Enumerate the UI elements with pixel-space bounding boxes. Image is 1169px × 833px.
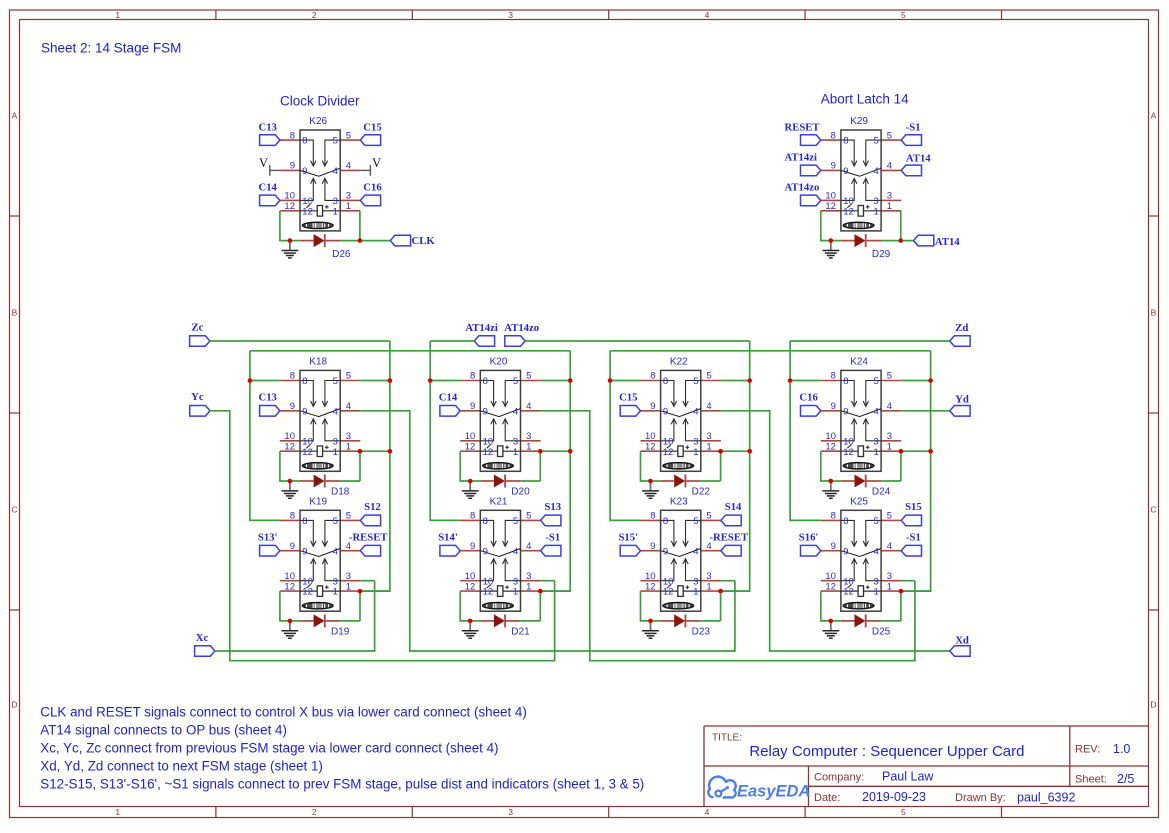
svg-text:9: 9	[831, 541, 836, 552]
port Xc	[195, 632, 215, 656]
net flag V (K26 pin 9 left)	[259, 156, 280, 176]
svg-text:1: 1	[526, 441, 531, 452]
svg-text:1: 1	[333, 447, 338, 458]
svg-text:AT14 signal connects to OP bus: AT14 signal connects to OP bus (sheet 4)	[40, 723, 287, 738]
wire pin-5/pin-1 bus column 1	[360, 341, 390, 591]
wire pin-8 bus column 4	[790, 341, 821, 520]
svg-text:5: 5	[874, 136, 879, 147]
svg-text:12: 12	[483, 587, 494, 598]
svg-text:4: 4	[513, 546, 518, 557]
wire pin-8 bus column 3	[610, 351, 640, 521]
svg-text:3: 3	[706, 431, 711, 442]
svg-text:S14: S14	[725, 501, 742, 513]
svg-text:10: 10	[645, 431, 656, 442]
wire K22.8 bus to K24 right bus (row 351)	[610, 350, 931, 352]
port AT14 (output)	[914, 235, 961, 248]
svg-text:9: 9	[843, 166, 848, 177]
relay K23	[641, 497, 721, 612]
svg-text:RESET: RESET	[785, 121, 820, 133]
svg-text:1: 1	[526, 581, 531, 592]
svg-text:D: D	[1150, 700, 1156, 710]
svg-text:AT14: AT14	[935, 236, 960, 248]
svg-text:4: 4	[526, 541, 531, 552]
svg-text:5: 5	[346, 511, 351, 522]
port Xd	[950, 634, 970, 656]
port Zd	[950, 322, 970, 346]
svg-text:C15: C15	[619, 391, 637, 403]
svg-text:5: 5	[333, 136, 338, 147]
wire K25 pin1 loop	[881, 591, 931, 621]
relay K20	[460, 357, 540, 472]
port AT14zo (K29 pin 10)	[785, 182, 821, 206]
svg-text:1: 1	[346, 201, 351, 212]
svg-text:3: 3	[706, 571, 711, 582]
net flag V (K26 pin 4 right)	[360, 156, 381, 176]
diode D25	[831, 614, 891, 637]
svg-text:AT14zo: AT14zo	[785, 182, 820, 194]
wire Yc to K21.3	[210, 411, 555, 661]
svg-text:2019-09-23: 2019-09-23	[862, 790, 926, 804]
svg-text:3: 3	[333, 576, 338, 587]
wire K26 pin12 to ground loop	[280, 211, 290, 241]
svg-text:5: 5	[513, 516, 518, 527]
wire K24 pin12 loop	[821, 451, 831, 481]
svg-text:5: 5	[887, 130, 892, 141]
svg-text:K29: K29	[850, 116, 868, 127]
svg-text:3: 3	[346, 431, 351, 442]
diode D29	[831, 234, 891, 260]
wire K19 pin1 loop	[340, 591, 390, 621]
svg-text:C: C	[11, 505, 17, 515]
relay K21	[460, 497, 540, 612]
svg-text:8: 8	[843, 376, 848, 387]
wire K19.3 stub-run	[360, 580, 374, 582]
svg-text:3: 3	[346, 191, 351, 202]
svg-text:AT14zi: AT14zi	[785, 152, 817, 164]
ground	[822, 621, 839, 638]
svg-text:1: 1	[513, 587, 518, 598]
svg-text:12: 12	[663, 447, 674, 458]
svg-text:1: 1	[513, 447, 518, 458]
svg-text:Clock Divider: Clock Divider	[280, 93, 360, 108]
svg-text:-RESET: -RESET	[709, 531, 748, 543]
svg-text:AT14: AT14	[906, 152, 931, 164]
svg-text:S12-S15, S13'-S16', ~S1 signal: S12-S15, S13'-S16', ~S1 signals connect …	[40, 777, 644, 792]
svg-text:9: 9	[831, 161, 836, 172]
svg-text:12: 12	[284, 201, 295, 212]
svg-text:4: 4	[693, 406, 698, 417]
svg-text:12: 12	[843, 447, 854, 458]
svg-text:5: 5	[526, 511, 531, 522]
svg-text:1: 1	[693, 447, 698, 458]
svg-text:9: 9	[290, 161, 295, 172]
wire K24 pin1 loop	[881, 451, 931, 481]
svg-text:10: 10	[284, 191, 295, 202]
wire K20.4 to K25.3	[541, 411, 915, 661]
svg-text:5: 5	[346, 130, 351, 141]
wire K22 pin1 loop	[701, 451, 750, 481]
port S15 (K25 pin 5)	[901, 501, 922, 526]
svg-text:12: 12	[284, 581, 295, 592]
wire pin-8 bus column 1	[250, 351, 280, 521]
svg-text:4: 4	[333, 546, 338, 557]
svg-text:D18: D18	[331, 486, 350, 497]
svg-text:2: 2	[312, 10, 317, 20]
svg-text:1: 1	[706, 581, 711, 592]
svg-text:10: 10	[825, 431, 836, 442]
port S15' (K23 pin 9)	[618, 531, 640, 556]
port C16 (K24 pin 9)	[799, 391, 820, 416]
port C14 (K26 pin 10)	[258, 182, 279, 206]
port -RESET (K19 pin 4)	[349, 531, 388, 556]
ground	[822, 481, 839, 498]
svg-text:TITLE:: TITLE:	[712, 733, 742, 744]
port AT14zi (grid)	[465, 322, 497, 346]
svg-text:8: 8	[302, 516, 307, 527]
svg-text:D: D	[11, 700, 17, 710]
ground	[462, 621, 479, 638]
diode D24	[831, 475, 891, 498]
svg-text:5: 5	[706, 511, 711, 522]
svg-text:S14': S14'	[438, 531, 458, 543]
svg-text:K21: K21	[490, 497, 508, 508]
relay K25	[821, 497, 901, 612]
svg-text:1: 1	[887, 441, 892, 452]
relay K19	[280, 497, 360, 612]
svg-text:10: 10	[302, 196, 313, 207]
wire K20 pin1 loop	[520, 451, 570, 481]
wire K18.4 to K23.3	[360, 411, 735, 651]
wire pin-5/pin-1 bus column 3	[721, 341, 750, 591]
svg-text:9: 9	[470, 401, 475, 412]
port AT14 (K29 pin 4)	[901, 152, 931, 175]
svg-text:4: 4	[333, 406, 338, 417]
diode D21	[470, 614, 530, 637]
svg-text:Xd, Yd, Zd connect to next FSM: Xd, Yd, Zd connect to next FSM stage (sh…	[40, 759, 323, 774]
svg-text:Abort Latch 14: Abort Latch 14	[821, 91, 909, 106]
svg-text:1: 1	[706, 441, 711, 452]
wire K18 pin1 loop	[340, 451, 390, 481]
svg-text:D21: D21	[511, 626, 530, 637]
svg-text:1: 1	[333, 587, 338, 598]
svg-text:CLK: CLK	[412, 235, 436, 247]
port C15 (K26 pin 5)	[360, 121, 381, 145]
wire K23 pin1 loop	[701, 591, 750, 621]
svg-text:4: 4	[874, 546, 879, 557]
svg-text:9: 9	[290, 541, 295, 552]
port AT14zi (K29 pin 9)	[785, 152, 821, 176]
svg-text:12: 12	[843, 587, 854, 598]
svg-text:9: 9	[650, 401, 655, 412]
svg-text:9: 9	[843, 406, 848, 417]
svg-text:D20: D20	[511, 486, 530, 497]
svg-text:A: A	[1151, 111, 1157, 121]
svg-text:3: 3	[508, 807, 513, 817]
svg-text:4: 4	[705, 807, 710, 817]
svg-text:A: A	[12, 111, 18, 121]
svg-text:8: 8	[470, 371, 475, 382]
svg-text:5: 5	[526, 371, 531, 382]
svg-text:10: 10	[302, 436, 313, 447]
svg-text:12: 12	[483, 447, 494, 458]
svg-text:1.0: 1.0	[1113, 742, 1130, 756]
svg-text:D29: D29	[872, 249, 891, 260]
svg-text:3: 3	[874, 576, 879, 587]
diode D26	[290, 234, 351, 260]
port S12 (K19 pin 5)	[360, 501, 381, 526]
svg-text:3: 3	[333, 436, 338, 447]
svg-text:10: 10	[843, 576, 854, 587]
svg-text:3: 3	[526, 431, 531, 442]
svg-text:4: 4	[693, 546, 698, 557]
port S13' (K19 pin 9)	[258, 531, 280, 556]
svg-text:12: 12	[843, 206, 854, 217]
svg-text:9: 9	[650, 541, 655, 552]
svg-text:9: 9	[302, 166, 307, 177]
wire K29 pin12 to ground loop	[821, 211, 831, 241]
svg-text:AT14zo: AT14zo	[504, 322, 539, 334]
svg-text:3: 3	[887, 431, 892, 442]
wire Xc to K19.3	[215, 581, 375, 651]
relay K18	[280, 357, 360, 472]
wire K25.3 stub-run	[901, 580, 915, 582]
svg-text:5: 5	[874, 516, 879, 527]
svg-text:K23: K23	[670, 497, 688, 508]
svg-text:5: 5	[346, 371, 351, 382]
svg-text:12: 12	[465, 581, 476, 592]
svg-text:10: 10	[825, 571, 836, 582]
svg-text:C16: C16	[799, 391, 818, 403]
relay K22	[641, 357, 721, 472]
svg-text:C13: C13	[258, 121, 276, 133]
svg-text:4: 4	[346, 401, 351, 412]
svg-text:4: 4	[333, 166, 338, 177]
wire K24.4 to Yd	[901, 410, 950, 412]
svg-text:8: 8	[483, 376, 488, 387]
svg-text:EasyEDA: EasyEDA	[737, 783, 810, 801]
wire K24.8 bus to Zd	[790, 340, 950, 342]
svg-text:8: 8	[650, 371, 655, 382]
svg-text:Xd: Xd	[955, 634, 969, 646]
svg-text:5: 5	[706, 371, 711, 382]
wire K19 pin12 loop	[280, 591, 290, 621]
svg-text:D25: D25	[872, 626, 891, 637]
port C16 (K26 pin 3)	[360, 182, 382, 206]
ground	[822, 241, 839, 258]
svg-text:Xc: Xc	[196, 632, 209, 644]
svg-text:10: 10	[284, 571, 295, 582]
svg-text:8: 8	[290, 371, 295, 382]
wire pin-5/pin-1 bus column 4	[901, 351, 931, 591]
svg-text:8: 8	[290, 130, 295, 141]
svg-text:8: 8	[831, 371, 836, 382]
svg-text:S13: S13	[544, 501, 561, 513]
svg-text:10: 10	[483, 436, 494, 447]
svg-text:9: 9	[302, 406, 307, 417]
svg-text:9: 9	[831, 401, 836, 412]
svg-text:12: 12	[663, 587, 674, 598]
svg-text:Company:: Company:	[814, 772, 864, 784]
svg-text:8: 8	[831, 130, 836, 141]
port S14' (K21 pin 9)	[438, 531, 460, 556]
port Yd	[950, 393, 970, 416]
svg-text:12: 12	[465, 441, 476, 452]
svg-text:Sheet 2: 14 Stage FSM: Sheet 2: 14 Stage FSM	[41, 41, 181, 56]
ground	[282, 621, 299, 638]
svg-text:12: 12	[825, 581, 836, 592]
svg-text:Date:: Date:	[814, 792, 840, 804]
svg-text:9: 9	[663, 406, 668, 417]
svg-text:Relay Computer : Sequencer Upp: Relay Computer : Sequencer Upper Card	[749, 743, 1024, 760]
title block text	[712, 733, 1134, 805]
svg-text:12: 12	[302, 587, 313, 598]
svg-text:D24: D24	[872, 486, 891, 497]
svg-text:5: 5	[513, 376, 518, 387]
svg-text:D26: D26	[332, 249, 351, 260]
svg-text:3: 3	[887, 571, 892, 582]
svg-text:B: B	[1151, 308, 1157, 318]
svg-text:CLK and RESET signals connect: CLK and RESET signals connect to control…	[40, 705, 527, 720]
svg-text:-RESET: -RESET	[349, 531, 388, 543]
svg-text:-S1: -S1	[906, 531, 921, 543]
svg-text:3: 3	[508, 10, 513, 20]
svg-text:3: 3	[333, 196, 338, 207]
svg-text:S16': S16'	[799, 531, 819, 543]
svg-text:10: 10	[663, 436, 674, 447]
svg-text:5: 5	[333, 376, 338, 387]
svg-text:K18: K18	[309, 357, 327, 368]
port Zc	[190, 322, 210, 347]
svg-text:C15: C15	[363, 121, 381, 133]
svg-text:12: 12	[302, 206, 313, 217]
svg-text:10: 10	[483, 576, 494, 587]
port S14 (K23 pin 5)	[721, 501, 742, 526]
title block	[704, 726, 1149, 807]
port AT14zo (grid)	[504, 322, 539, 346]
svg-text:S15: S15	[905, 501, 922, 513]
wire pin-5/pin-1 bus column 2	[540, 351, 570, 591]
port C15 (K22 pin 9)	[619, 391, 640, 416]
svg-text:4: 4	[874, 406, 879, 417]
svg-text:Yc: Yc	[191, 391, 204, 403]
svg-text:4: 4	[706, 401, 711, 412]
svg-text:9: 9	[663, 546, 668, 557]
svg-text:8: 8	[470, 511, 475, 522]
svg-text:V: V	[372, 156, 381, 170]
wire K18 pin12 loop	[280, 451, 290, 481]
relay K24	[821, 357, 901, 472]
svg-text:3: 3	[693, 436, 698, 447]
port -S1 (K25 pin 4)	[901, 531, 921, 556]
wire pin-8 bus column 2	[430, 341, 460, 520]
svg-text:D19: D19	[331, 626, 350, 637]
wire K21.3 stub-run	[541, 580, 555, 582]
svg-text:1: 1	[346, 581, 351, 592]
svg-text:S15': S15'	[618, 531, 638, 543]
svg-text:3: 3	[513, 436, 518, 447]
svg-text:10: 10	[645, 571, 656, 582]
svg-text:9: 9	[302, 546, 307, 557]
diode D19	[290, 614, 350, 637]
svg-text:8: 8	[831, 511, 836, 522]
wire AT14zo to K22 right bus	[525, 340, 750, 342]
svg-text:9: 9	[843, 546, 848, 557]
svg-text:9: 9	[483, 406, 488, 417]
port C14 (K20 pin 9)	[439, 391, 460, 416]
svg-text:B: B	[12, 308, 18, 318]
wire K23 pin12 loop	[641, 591, 651, 621]
svg-text:Sheet:: Sheet:	[1075, 774, 1107, 786]
svg-text:8: 8	[483, 516, 488, 527]
svg-text:C14: C14	[258, 182, 277, 194]
svg-text:K20: K20	[490, 357, 508, 368]
svg-text:K24: K24	[850, 357, 868, 368]
svg-text:C16: C16	[363, 182, 382, 194]
svg-text:12: 12	[825, 441, 836, 452]
svg-text:K19: K19	[309, 497, 327, 508]
svg-text:4: 4	[887, 541, 892, 552]
svg-text:2/5: 2/5	[1117, 772, 1134, 786]
svg-text:5: 5	[887, 511, 892, 522]
svg-text:1: 1	[115, 10, 120, 20]
port -RESET (K23 pin 4)	[709, 531, 748, 556]
svg-text:1: 1	[874, 587, 879, 598]
svg-text:12: 12	[825, 201, 836, 212]
svg-text:12: 12	[284, 441, 295, 452]
svg-text:C: C	[1150, 505, 1156, 515]
svg-text:3: 3	[346, 571, 351, 582]
port C13 (K18 pin 9)	[258, 391, 279, 416]
port C13 (K26 pin 8)	[258, 121, 279, 145]
wire K29 pin1 / D29 cathode to AT14	[881, 211, 914, 241]
wire K21 pin1 loop	[520, 591, 570, 621]
svg-text:Yd: Yd	[955, 393, 969, 405]
svg-text:1: 1	[333, 206, 338, 217]
svg-text:5: 5	[693, 516, 698, 527]
svg-text:1: 1	[115, 807, 120, 817]
svg-text:5: 5	[874, 376, 879, 387]
svg-text:3: 3	[526, 571, 531, 582]
svg-text:12: 12	[645, 441, 656, 452]
wire K22.4 to Xd	[721, 411, 950, 651]
svg-text:1: 1	[874, 447, 879, 458]
port CLK	[390, 235, 435, 247]
svg-text:D22: D22	[692, 486, 711, 497]
svg-text:5: 5	[333, 516, 338, 527]
wire Zc to K18.5 bus	[210, 340, 390, 342]
svg-text:4: 4	[526, 401, 531, 412]
ground	[642, 481, 659, 498]
svg-text:3: 3	[874, 436, 879, 447]
svg-text:1: 1	[874, 206, 879, 217]
EasyEDA logo	[708, 777, 810, 801]
svg-text:K22: K22	[670, 357, 688, 368]
svg-text:S12: S12	[364, 501, 381, 513]
svg-text:-S1: -S1	[906, 122, 921, 134]
ground	[642, 621, 659, 638]
diode D18	[290, 475, 350, 498]
svg-text:10: 10	[284, 431, 295, 442]
svg-text:1: 1	[346, 441, 351, 452]
svg-text:10: 10	[825, 191, 836, 202]
port -S1 (K21 pin 4)	[541, 531, 561, 556]
svg-text:3: 3	[693, 576, 698, 587]
port S16' (K25 pin 9)	[799, 531, 821, 556]
svg-text:1: 1	[887, 201, 892, 212]
svg-text:3: 3	[874, 196, 879, 207]
svg-text:10: 10	[843, 436, 854, 447]
svg-text:Drawn By:: Drawn By:	[955, 792, 1006, 804]
